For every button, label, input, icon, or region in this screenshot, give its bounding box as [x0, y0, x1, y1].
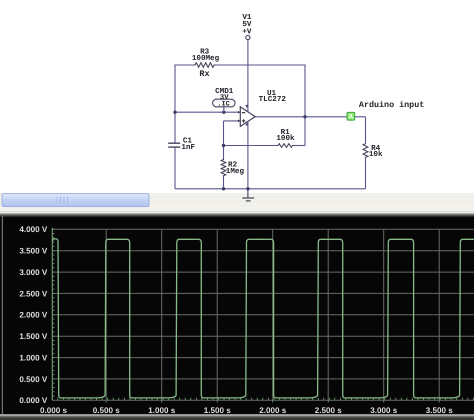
svg-text:0.500 V: 0.500 V — [19, 375, 48, 384]
svg-text:100k: 100k — [276, 134, 295, 143]
svg-text:1Meg: 1Meg — [226, 168, 245, 176]
svg-text:1.000 V: 1.000 V — [19, 353, 48, 362]
svg-text:TLC272: TLC272 — [259, 95, 287, 104]
svg-text:100Meg: 100Meg — [192, 54, 220, 63]
svg-text:3.500 V: 3.500 V — [19, 247, 48, 256]
svg-text:+V: +V — [242, 28, 252, 36]
svg-text:Arduino input: Arduino input — [359, 100, 424, 110]
svg-text:10k: 10k — [369, 150, 383, 159]
svg-text:2.500 s: 2.500 s — [315, 406, 343, 415]
svg-text:3.000 V: 3.000 V — [19, 268, 48, 277]
svg-text:2.500 V: 2.500 V — [19, 289, 48, 298]
svg-text:0.500 s: 0.500 s — [93, 406, 121, 415]
svg-text:3.500 s: 3.500 s — [426, 406, 454, 415]
svg-text:.IC: .IC — [217, 101, 230, 109]
svg-text:0.000 V: 0.000 V — [19, 396, 48, 405]
svg-text:1.000 s: 1.000 s — [148, 406, 176, 415]
svg-text:2.000 V: 2.000 V — [19, 311, 48, 320]
svg-text:4.000 V: 4.000 V — [19, 225, 48, 234]
svg-text:1nF: 1nF — [181, 144, 195, 152]
svg-text:Rx: Rx — [199, 69, 209, 79]
svg-text:A: A — [349, 114, 354, 121]
svg-text:0.000 s: 0.000 s — [40, 406, 68, 415]
svg-text:1.500 s: 1.500 s — [204, 406, 232, 415]
svg-text:3.000 s: 3.000 s — [370, 406, 398, 415]
svg-text:2.000 s: 2.000 s — [259, 406, 287, 415]
svg-text:1.500 V: 1.500 V — [19, 332, 48, 341]
